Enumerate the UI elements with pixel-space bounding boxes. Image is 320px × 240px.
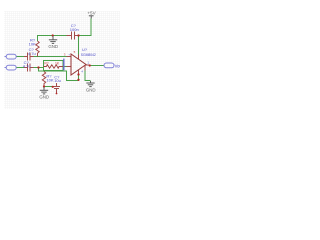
svg-text:+: +	[68, 52, 70, 56]
svg-text:4.7u: 4.7u	[28, 51, 36, 56]
svg-text:1K: 1K	[55, 61, 60, 65]
svg-text:4.7u: 4.7u	[23, 64, 31, 69]
svg-text:GND: GND	[39, 95, 49, 100]
svg-text:100n: 100n	[70, 27, 79, 32]
svg-text:U?: U?	[82, 47, 88, 52]
svg-text:R?: R?	[44, 61, 48, 65]
svg-text:+5V: +5V	[87, 11, 96, 16]
svg-text:10K: 10K	[29, 41, 36, 46]
svg-text:10u: 10u	[54, 78, 61, 83]
svg-text:10K: 10K	[46, 78, 53, 83]
svg-text:GND: GND	[86, 88, 96, 93]
svg-text:SGM8042: SGM8042	[81, 53, 96, 57]
svg-text:GND: GND	[48, 44, 58, 49]
svg-text:Vout: Vout	[115, 64, 120, 69]
